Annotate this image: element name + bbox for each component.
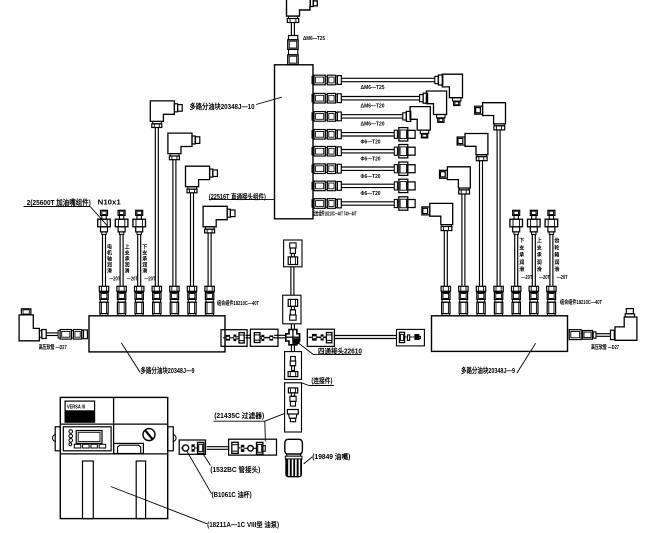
pipe [290,23,292,36]
panel display screen [76,431,102,444]
leader line [304,457,313,464]
pump unit 18211A-1C outline [60,397,167,518]
svg-text:多路分油块20348J—9: 多路分油块20348J—9 [461,365,515,375]
pump left mounting tab [55,427,60,451]
grease nipple right column 7 [548,210,555,215]
svg-text:下支承润滑: 下支承润滑 [518,237,525,273]
svg-text:N10x1: N10x1 [98,197,121,206]
right drop elbow to column 4 [483,103,506,124]
svg-text:组合组件18210C—40T: 组合组件18210C—40T [217,299,259,307]
row 5 pipe [341,149,394,151]
pipe [154,128,156,286]
check valve stack, left manifold col 7 [205,286,214,291]
pipe [334,335,396,337]
row 4 pipe [341,132,394,134]
pipe [246,334,251,336]
cross junction 22610 [286,330,300,345]
row 3 elbow inlet fitting [403,113,407,120]
leader line [517,343,536,373]
pipe [119,234,121,286]
svg-text:(19849 油嘴): (19849 油嘴) [312,452,350,461]
far right elbow fitting [615,317,637,340]
svg-text:Φ6—T20: Φ6—T20 [361,139,381,145]
leader underline [209,199,275,201]
right elbow inlet flange [611,330,615,339]
svg-text:ΔM6—T20: ΔM6—T20 [361,122,385,128]
row 3 coupling at block [312,113,314,120]
row 7 end stud fitting [394,182,397,190]
check valve stack, right manifold col 4 [494,286,503,291]
fitting box A [179,440,205,454]
pipe [596,333,611,335]
svg-text:—20T: —20T [144,276,155,282]
svg-text:多路分油块20348J—9: 多路分油块20348J—9 [141,365,195,375]
pump right mounting tab [168,427,174,451]
pipe [479,161,481,286]
svg-text:组合组件18210C—40T 740—40T: 组合组件18210C—40T 740—40T [313,209,357,217]
row 4 end stud fitting [394,130,397,138]
svg-text:—20T: —20T [539,275,550,281]
svg-text:Φ6—T20: Φ6—T20 [361,174,381,180]
oil cup neck [286,454,301,456]
check valve stack, right manifold col 7 [547,286,556,291]
left drop elbow to column 5 [168,133,192,154]
row 1 elbow inlet fitting [435,76,439,83]
pipe [172,160,174,286]
svg-text:ΔM6—T25: ΔM6—T25 [361,85,385,91]
row 1 coupling at block [312,76,314,83]
pump leg right [136,461,145,519]
right drop elbow to column 1 [430,203,453,224]
coupler box R2 at right manifold inlet [397,329,425,346]
oil cup striped body [285,456,302,477]
pipe [207,446,230,448]
left manifold block 20348J-9 [89,316,225,352]
leader line [121,343,140,373]
leader line [256,97,282,104]
row 3 end elbow [410,107,430,131]
pump pressure gauge [143,429,155,441]
row 6 coupling at block [312,165,314,172]
grease nipple left column 2 [118,210,125,215]
svg-text:(18211A—1C VIII型 油泵): (18211A—1C VIII型 油泵) [207,520,279,529]
panel buttons [74,444,81,448]
fitting box D1 [285,352,302,380]
pipe [496,130,498,286]
svg-text:齿轮箱润滑: 齿轮箱润滑 [553,237,559,273]
top feed outlet nut [288,16,297,18]
oil cup dome [285,439,303,454]
svg-text:(21435C 过滤器): (21435C 过滤器) [214,411,264,420]
fitting stack in U1 [290,243,296,248]
fitting box U2 [283,295,301,324]
coupling at right manifold [569,330,581,340]
row 8 pipe [341,201,394,203]
svg-text:Φ6—T20: Φ6—T20 [361,156,381,162]
fitting box U1 [284,240,302,267]
fitting stack in U2 [288,299,297,306]
pipe [531,234,533,286]
pipe [207,233,209,286]
pipe [102,234,104,286]
row 5 coupling at block [312,148,314,155]
row 5 end stud fitting [394,147,397,155]
fitting box B [229,439,277,455]
check valve stack, left manifold col 6 [187,286,196,291]
check valve stack, right manifold col 6 [529,286,538,291]
svg-text:(B1061C 油杯): (B1061C 油杯) [212,490,252,499]
distributor block 20348J-10 [275,65,314,219]
coupler box L1 at left manifold outlet [221,330,247,347]
fitting stack in D1 [291,357,296,362]
svg-text:2(25600T 加油嘴组件): 2(25600T 加油嘴组件) [27,197,91,207]
pipe [137,234,139,286]
far left elbow fitting [19,315,39,341]
left drop elbow to column 6 [186,166,210,187]
pump leg left [83,461,94,519]
check valve stack, left manifold col 4 [152,286,161,291]
leader underline [24,206,91,208]
row 6 pipe [341,166,394,168]
pipe [443,231,445,286]
left drop elbow to column 7 [203,206,227,227]
left drop elbow to column 4 [150,101,174,122]
check valve stack, left manifold col 2 [117,286,126,291]
pipe [290,345,292,352]
leader line [111,487,207,524]
check valve stack, left manifold col 1 [99,286,108,291]
svg-text:下支承润滑: 下支承润滑 [141,243,148,274]
fitting box D2 [285,383,302,432]
row 2 pipe [341,96,419,98]
row 4 coupling at block [312,131,314,138]
check valve stack, right manifold col 3 [476,286,485,291]
svg-text:ΔM6—T20: ΔM6—T20 [361,103,385,109]
leader line [204,455,211,466]
svg-text:—20T: —20T [557,275,568,281]
svg-text:高压软管 —D27: 高压软管 —D27 [591,343,619,351]
check valve stack, left manifold col 3 [135,286,144,291]
control panel [63,427,111,451]
row 8 coupling at block [312,200,314,207]
elbow fitting, top feed inlet [287,0,311,16]
row 7 coupling at block [312,182,314,189]
pipe [190,193,192,286]
pipe [46,332,58,334]
svg-text:电机轴润滑: 电机轴润滑 [106,243,112,274]
fitting stack in D2 [288,388,297,393]
check valve stack, right manifold col 2 [459,286,468,291]
check valve stack, right manifold col 1 [441,286,450,291]
svg-text:高压软管 —D27: 高压软管 —D27 [39,343,67,351]
row 1 pipe [341,77,435,79]
pipe [461,194,463,286]
union fitting stack on top feed [289,36,298,40]
pipe [514,234,516,286]
right drop elbow to column 2 [447,167,470,188]
pipe [274,334,286,336]
row 2 end elbow [426,91,446,115]
panel indicator lights [69,430,73,434]
filter fitting in D2 [287,410,298,415]
check valve stack, right manifold col 5 [512,286,521,291]
svg-text:ΔM6—T25: ΔM6—T25 [303,36,325,42]
VERSA III nameplate [65,401,95,422]
coupler box L2 [250,329,278,346]
row 1 end elbow [442,74,462,98]
pipe [290,324,292,330]
svg-text:上支承润滑: 上支承润滑 [536,237,543,273]
svg-text:多路分油块20348J—10: 多路分油块20348J—10 [190,101,255,111]
coupling to left manifold [58,331,60,338]
svg-text:VERSA III: VERSA III [67,404,85,410]
leader line [187,451,212,494]
grease nipple left column 1 [101,210,108,215]
check valve stack, left manifold col 5 [170,286,179,291]
leader underline [296,342,313,355]
row 2 coupling at block [312,95,314,102]
leader underline [213,420,264,422]
svg-text:Φ6—T20: Φ6—T20 [361,191,381,197]
svg-text:—20T: —20T [521,275,532,281]
svg-text:(连接件): (连接件) [311,376,332,385]
grease nipple right column 5 [513,210,520,215]
far left elbow outlet [39,331,41,338]
svg-text:—20T: —20T [109,276,120,282]
leader underline [302,383,310,386]
svg-text:组合组件18210C—40T: 组合组件18210C—40T [560,298,602,306]
right manifold block 20348J-9 [432,316,568,352]
right drop elbow to column 3 [465,134,488,155]
svg-text:上支承润滑: 上支承润滑 [124,243,131,274]
svg-text:—20T: —20T [127,276,138,282]
pipe [405,336,408,338]
svg-text:(1532BC 管接头): (1532BC 管接头) [210,465,260,474]
pump tray [114,443,144,453]
grease nipple left column 3 [136,210,143,215]
row 3 pipe [341,114,403,116]
row 7 pipe [341,183,394,185]
row 6 end stud fitting [394,165,397,173]
pump divider lines [113,397,115,454]
grease nipple right column 6 [530,210,537,215]
row 8 end stud fitting [394,199,397,207]
pipe [290,267,292,295]
coupler box R1 right of cross [307,329,334,346]
pipe [549,234,551,286]
row 2 elbow inlet fitting [420,95,424,102]
